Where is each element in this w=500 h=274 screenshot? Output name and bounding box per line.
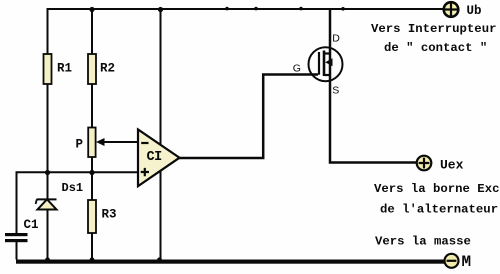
svg-text:de " contact ": de " contact ": [384, 41, 487, 55]
svg-text:C1: C1: [24, 218, 39, 232]
svg-text:R1: R1: [57, 62, 72, 76]
svg-text:de l'alternateur: de l'alternateur: [380, 203, 498, 217]
svg-text:Vers la masse: Vers la masse: [375, 235, 471, 249]
svg-text:CI: CI: [147, 150, 163, 165]
svg-text:P: P: [76, 138, 84, 152]
svg-text:Uex: Uex: [440, 158, 464, 173]
svg-text:Ub: Ub: [467, 4, 482, 18]
svg-text:Vers Interrupteur: Vers Interrupteur: [371, 22, 496, 36]
svg-text:R3: R3: [102, 208, 117, 222]
svg-text:R2: R2: [100, 62, 115, 76]
svg-text:M: M: [462, 253, 472, 271]
svg-text:Vers la borne Exc: Vers la borne Exc: [374, 182, 499, 196]
svg-text:S: S: [332, 84, 339, 96]
svg-text:G: G: [293, 62, 301, 74]
svg-text:D: D: [332, 32, 340, 44]
svg-text:Ds1: Ds1: [62, 181, 84, 195]
